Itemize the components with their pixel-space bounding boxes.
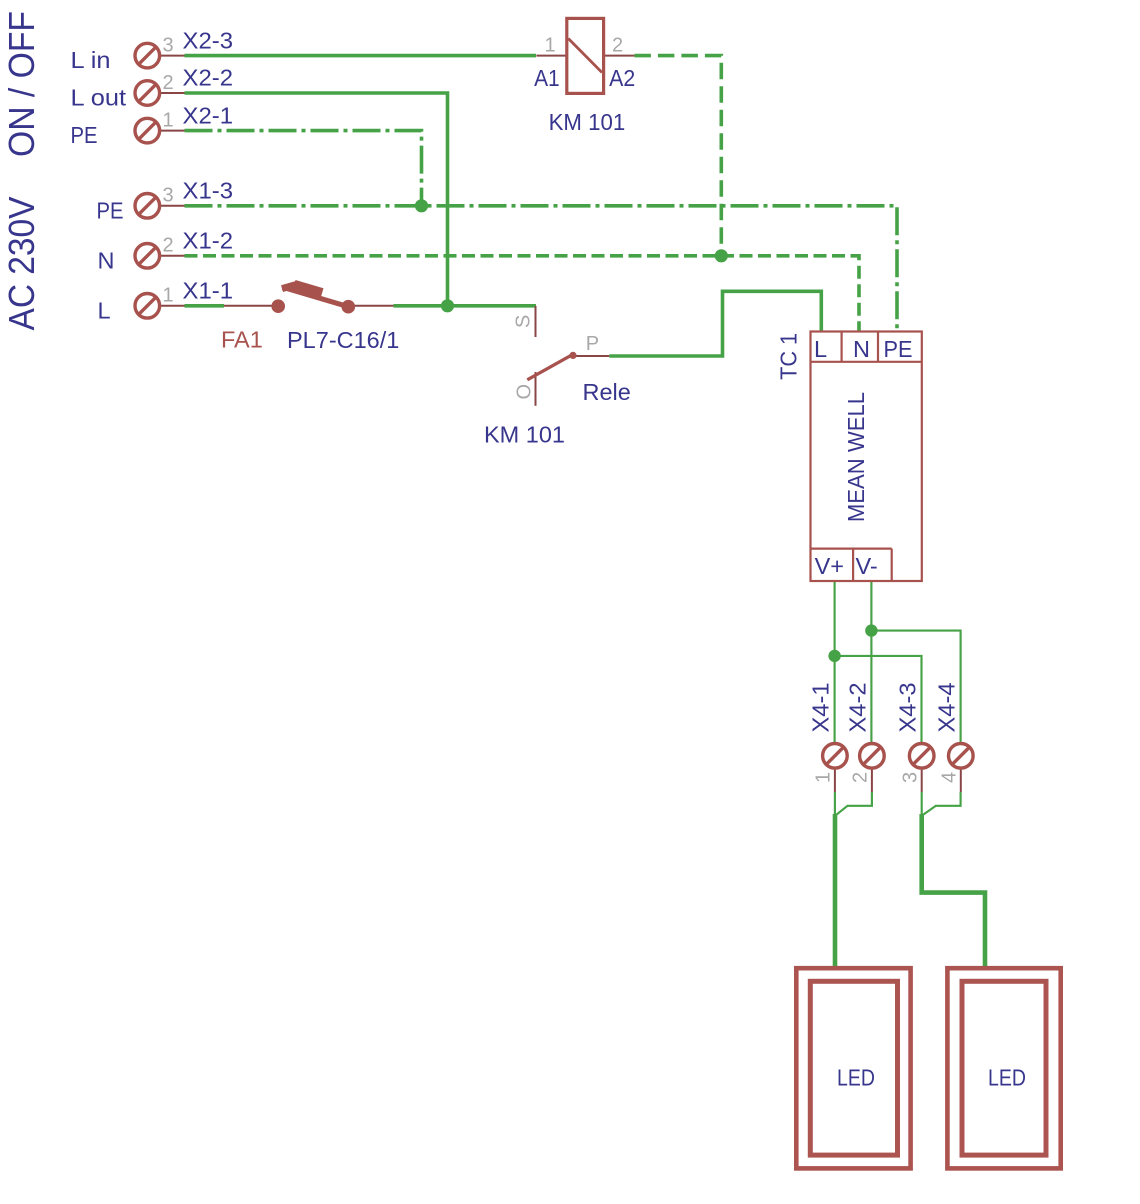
svg-text:X2-3: X2-3 bbox=[183, 27, 234, 53]
svg-text:L in: L in bbox=[71, 47, 111, 73]
svg-text:X4-1: X4-1 bbox=[808, 683, 834, 733]
svg-text:3: 3 bbox=[899, 772, 921, 783]
svg-text:X4-4: X4-4 bbox=[933, 683, 959, 733]
svg-text:O: O bbox=[514, 384, 536, 400]
svg-text:3: 3 bbox=[163, 185, 174, 207]
svg-text:2: 2 bbox=[163, 72, 174, 94]
svg-text:X1-2: X1-2 bbox=[183, 228, 234, 254]
svg-text:FA1: FA1 bbox=[221, 327, 263, 353]
svg-text:1: 1 bbox=[545, 35, 556, 57]
svg-text:KM 101: KM 101 bbox=[549, 109, 626, 135]
svg-text:KM 101: KM 101 bbox=[484, 422, 565, 448]
svg-text:P: P bbox=[586, 333, 599, 355]
svg-text:A1: A1 bbox=[534, 65, 560, 91]
svg-text:L: L bbox=[98, 297, 111, 323]
svg-text:L out: L out bbox=[71, 84, 127, 110]
svg-text:A2: A2 bbox=[609, 65, 635, 91]
svg-text:V-: V- bbox=[856, 553, 878, 579]
svg-text:N: N bbox=[98, 247, 115, 273]
svg-text:PE: PE bbox=[884, 336, 913, 362]
svg-text:N: N bbox=[853, 336, 870, 362]
svg-text:X4-3: X4-3 bbox=[894, 683, 920, 733]
svg-text:PL7-C16/1: PL7-C16/1 bbox=[287, 327, 399, 353]
svg-text:L: L bbox=[814, 336, 827, 362]
svg-text:3: 3 bbox=[163, 34, 174, 56]
svg-text:4: 4 bbox=[938, 772, 960, 783]
svg-text:1: 1 bbox=[813, 772, 835, 783]
svg-text:X2-2: X2-2 bbox=[183, 65, 234, 91]
svg-text:2: 2 bbox=[612, 35, 623, 57]
svg-text:AC 230V: AC 230V bbox=[1, 197, 42, 331]
svg-text:LED: LED bbox=[988, 1065, 1026, 1091]
svg-text:PE: PE bbox=[71, 122, 98, 148]
svg-text:Rele: Rele bbox=[583, 379, 631, 405]
svg-text:LED: LED bbox=[837, 1065, 875, 1091]
svg-text:1: 1 bbox=[163, 285, 174, 307]
svg-text:X1-1: X1-1 bbox=[183, 278, 234, 304]
svg-text:S: S bbox=[513, 315, 535, 328]
svg-text:V+: V+ bbox=[815, 553, 844, 579]
svg-text:1: 1 bbox=[163, 109, 174, 131]
svg-text:X1-3: X1-3 bbox=[183, 178, 234, 204]
svg-text:2: 2 bbox=[850, 772, 872, 783]
svg-text:X4-2: X4-2 bbox=[845, 683, 871, 733]
svg-text:2: 2 bbox=[163, 235, 174, 257]
svg-text:X2-1: X2-1 bbox=[183, 102, 234, 128]
svg-text:ON / OFF: ON / OFF bbox=[1, 11, 42, 157]
svg-text:MEAN WELL: MEAN WELL bbox=[843, 392, 869, 522]
svg-text:TC 1: TC 1 bbox=[776, 333, 802, 380]
svg-text:PE: PE bbox=[97, 197, 124, 223]
